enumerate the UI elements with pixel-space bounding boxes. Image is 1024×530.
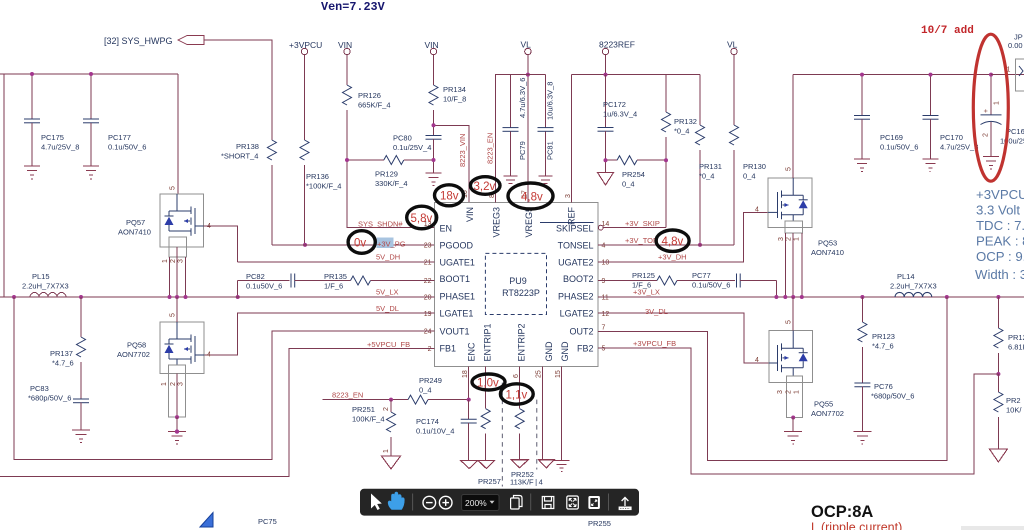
capacitor PC172	[598, 75, 638, 161]
net label +3VPCU_FB	[633, 339, 676, 348]
capacitor PC76	[854, 382, 914, 432]
svg-text:6: 6	[513, 374, 520, 378]
net label 3V_DL	[645, 307, 668, 316]
transistor PQ53 AON7410	[755, 167, 844, 257]
wire VL to VREG5 pin	[526, 55, 530, 203]
svg-text:10: 10	[602, 259, 610, 266]
svg-text:11: 11	[602, 295, 609, 302]
svg-text:AON7702: AON7702	[117, 350, 150, 359]
svg-text:PR129: PR129	[375, 170, 398, 179]
annotation Ven=7.23V	[321, 0, 386, 14]
wire VOUT1 sense loop	[14, 297, 435, 459]
resistor PR129 horizontal	[347, 156, 434, 189]
bottom right gray strip	[961, 526, 1024, 530]
svg-text:REF: REF	[566, 206, 576, 225]
junction dots left bus	[12, 295, 188, 299]
ground V divider	[989, 449, 1007, 462]
wire 8223_VIN branch to IC VIN pin	[434, 125, 469, 202]
annotation circle 4,8v TONSEL	[656, 230, 689, 251]
resistor PR249 horizontal	[408, 376, 469, 404]
svg-text:0.1u/25V_4: 0.1u/25V_4	[393, 143, 431, 152]
resistor PR252	[510, 366, 543, 486]
capacitor PC175	[24, 74, 79, 166]
svg-text:2: 2	[170, 382, 177, 386]
svg-text:3: 3	[565, 194, 572, 198]
svg-text:OCP:8A: OCP:8A	[811, 503, 873, 521]
svg-text:TONSEL: TONSEL	[558, 240, 594, 250]
svg-text:2: 2	[786, 390, 793, 394]
svg-text:PR132: PR132	[674, 117, 697, 126]
net label +3V_SKIP	[625, 219, 660, 228]
svg-text:5: 5	[786, 167, 793, 171]
label PR255	[588, 519, 611, 528]
wire SKIPSEL	[603, 227, 666, 229]
annotation circle 1,0v	[472, 374, 505, 390]
svg-text:2.2uH_7X7X3: 2.2uH_7X7X3	[22, 282, 69, 291]
svg-text:L (ripple current): L (ripple current)	[811, 521, 902, 530]
svg-text:PR125: PR125	[632, 271, 655, 280]
capacitor PC81	[538, 75, 555, 176]
svg-text:19: 19	[424, 311, 432, 318]
svg-text:25: 25	[536, 370, 543, 378]
svg-text:VL: VL	[727, 40, 738, 50]
svg-text:*0_4: *0_4	[674, 127, 689, 136]
svg-text:PR249: PR249	[419, 376, 442, 385]
svg-text:PC77: PC77	[692, 271, 711, 280]
svg-text:UGATE2: UGATE2	[558, 258, 593, 268]
annotation circle 0v	[348, 231, 375, 254]
svg-text:VREG5: VREG5	[524, 207, 534, 238]
svg-text:4,8v: 4,8v	[521, 192, 543, 204]
ground V ENC	[460, 460, 478, 468]
wire top-right VIN rail	[793, 74, 1024, 76]
junction dots top rail	[30, 72, 93, 76]
text L ripple current	[811, 521, 902, 530]
net label +3V_DH	[658, 253, 687, 262]
svg-text:+3VPCU: +3VPCU	[976, 187, 1024, 202]
svg-text:2.2uH_7X7X3: 2.2uH_7X7X3	[890, 282, 937, 291]
svg-text:4: 4	[755, 207, 759, 214]
text block right specs	[975, 187, 1024, 282]
svg-text:*SHORT_4: *SHORT_4	[221, 152, 258, 161]
svg-text:+3VPCU_FB: +3VPCU_FB	[633, 339, 676, 348]
svg-text:RT8223P: RT8223P	[502, 288, 540, 298]
svg-text:3: 3	[778, 237, 785, 241]
ground PC170	[923, 159, 939, 172]
svg-text:*4.7_6: *4.7_6	[52, 359, 74, 368]
net label 5V_DL	[376, 304, 399, 313]
svg-text:330K/F_4: 330K/F_4	[375, 179, 408, 188]
svg-text:[32] SYS_HWPG: [32] SYS_HWPG	[104, 36, 173, 46]
svg-text:2: 2	[170, 259, 177, 263]
svg-text:4,8v: 4,8v	[662, 236, 684, 248]
capacitor PC82	[238, 272, 295, 291]
svg-text:8223_VIN: 8223_VIN	[458, 134, 467, 167]
ground PC81	[539, 176, 553, 184]
svg-text:PL15: PL15	[32, 272, 50, 281]
PQ57 source pin box	[162, 237, 187, 297]
svg-text:18: 18	[462, 370, 469, 378]
svg-text:10K/: 10K/	[1006, 406, 1022, 415]
svg-text:1/F_6: 1/F_6	[324, 282, 343, 291]
svg-text:PL14: PL14	[897, 272, 915, 281]
svg-text:1,0v: 1,0v	[477, 378, 499, 390]
svg-text:2: 2	[428, 346, 432, 353]
svg-text:6.81K: 6.81K	[1008, 343, 1024, 352]
capacitor PC169	[854, 73, 918, 159]
svg-text:2: 2	[383, 407, 390, 411]
svg-text:*680p/50V_6: *680p/50V_6	[28, 394, 71, 403]
svg-text:3,2v: 3,2v	[474, 181, 496, 193]
wire LGATE1 to PQ58 gate	[204, 313, 434, 355]
wire 8223REF rail	[572, 55, 701, 203]
annotation 10/7 add	[921, 25, 974, 37]
ground PC169	[854, 159, 870, 172]
svg-text:TDC : 7.: TDC : 7.	[976, 218, 1024, 233]
svg-text:PR12: PR12	[1008, 333, 1024, 342]
wire LGATE2 to PQ55 gate	[598, 313, 769, 363]
annotation red ellipse right	[973, 34, 1008, 181]
capacitor PC83	[28, 384, 89, 430]
junction dots right bus	[774, 295, 1000, 299]
resistor PR251	[352, 398, 396, 456]
resistor PR2 divider bottom	[994, 374, 1022, 449]
svg-text:7: 7	[602, 325, 606, 332]
annotation circle 5,8v	[407, 206, 437, 229]
svg-text:PC76: PC76	[874, 382, 893, 391]
svg-text:AON7702: AON7702	[811, 409, 844, 418]
svg-text:12: 12	[602, 311, 610, 318]
svg-text:GND: GND	[560, 341, 570, 362]
net label 8223_VIN rotated	[458, 134, 467, 167]
svg-text:PR255: PR255	[588, 519, 611, 528]
node SYS_HWPG sheet connector [32]	[104, 36, 204, 47]
resistor PR132	[662, 75, 697, 228]
wire OUT2 sense loop	[598, 297, 947, 460]
svg-text:LGATE2: LGATE2	[560, 309, 594, 319]
annotation circle 4,8v VREG5	[508, 183, 553, 209]
svg-text:ENTRIP2: ENTRIP2	[516, 323, 526, 361]
wire PQ53 drain to rail	[792, 75, 794, 178]
svg-text:SYS_SHDN#: SYS_SHDN#	[358, 220, 403, 229]
node VL power port left	[521, 40, 532, 55]
IC top pin names rotated	[465, 206, 576, 237]
IC bottom pin numbers rotated	[462, 370, 562, 378]
IC left pin names	[440, 223, 476, 353]
svg-text:23: 23	[424, 243, 432, 250]
capacitor PC177	[83, 74, 146, 166]
svg-text:2: 2	[786, 237, 793, 241]
svg-text:3.3 Volt: 3.3 Volt	[976, 203, 1020, 218]
svg-text:PGOOD: PGOOD	[440, 240, 474, 250]
svg-text:ENTRIP1: ENTRIP1	[483, 323, 493, 361]
svg-text:PR134: PR134	[443, 85, 466, 94]
resistor PR130	[730, 55, 766, 245]
svg-text:*100K/F_4: *100K/F_4	[306, 182, 341, 191]
IC bottom pin names rotated	[466, 323, 570, 361]
PQ58 source pin box	[161, 365, 186, 432]
net label +3V_LX	[633, 288, 660, 297]
wire FB1 loop	[0, 348, 435, 476]
svg-text:22: 22	[424, 278, 432, 285]
resistor PR126	[343, 55, 391, 160]
svg-text:PR254: PR254	[622, 170, 645, 179]
resistor PR254 horizontal	[606, 156, 667, 189]
svg-text:0.00: 0.00	[1008, 41, 1023, 50]
resistor PR123	[858, 297, 895, 383]
pin SKIPSEL circle	[598, 225, 603, 230]
wire ENC pin to node	[467, 366, 471, 401]
wire PQ55 drain to bus	[792, 297, 794, 331]
svg-text:5V_DH: 5V_DH	[376, 253, 400, 262]
svg-text:5: 5	[786, 320, 793, 324]
dashed annotation line 1	[501, 383, 503, 487]
svg-text:0_4: 0_4	[419, 386, 432, 395]
capacitor PC77	[677, 271, 776, 290]
svg-text:1: 1	[794, 237, 801, 241]
svg-text:PQ53: PQ53	[818, 239, 837, 248]
svg-text:LGATE1: LGATE1	[440, 309, 474, 319]
ground V PR252	[511, 460, 528, 468]
svg-text:*0_4: *0_4	[699, 172, 714, 181]
wire BOOT2 drop	[775, 281, 777, 298]
wire VREG3 to rail	[496, 75, 511, 203]
svg-text:3V_DL: 3V_DL	[645, 307, 668, 316]
ground PC177	[83, 166, 99, 179]
svg-text:PR130: PR130	[743, 162, 766, 171]
wire 8223_EN line	[323, 399, 409, 401]
svg-text:4: 4	[602, 243, 606, 250]
IC PU9 RT8223P body	[435, 203, 599, 367]
svg-text:4.7u/6.3V_6: 4.7u/6.3V_6	[518, 78, 527, 118]
wire BOOT1 drop to LX	[236, 281, 240, 300]
wire GND pin 15	[561, 366, 563, 460]
ground PC76	[853, 432, 871, 445]
node VIN power port 2	[425, 40, 439, 55]
annotation circle 1,1v	[500, 384, 533, 404]
net label SYS_SHDN#	[358, 220, 403, 229]
svg-text:PC82: PC82	[246, 272, 265, 281]
PDF viewer toolbar	[360, 489, 639, 516]
svg-text:+3V_TON: +3V_TON	[625, 236, 658, 245]
ground PC175	[24, 166, 40, 179]
svg-text:100u/25: 100u/25	[1000, 137, 1024, 146]
svg-text:BOOT2: BOOT2	[563, 274, 594, 284]
svg-text:BOOT1: BOOT1	[440, 274, 471, 284]
svg-text:8223_EN: 8223_EN	[486, 133, 495, 164]
svg-text:10/F_8: 10/F_8	[443, 95, 466, 104]
svg-text:PR2: PR2	[1006, 396, 1021, 405]
capacitor PC16 polarized bulk	[981, 73, 1024, 157]
svg-text:0_4: 0_4	[743, 172, 756, 181]
svg-text:VOUT1: VOUT1	[440, 327, 470, 337]
ground V GND25	[539, 460, 555, 468]
wire SYS_HWPG to PR138	[204, 40, 272, 140]
svg-text:3: 3	[178, 382, 185, 386]
svg-text:GND: GND	[544, 341, 554, 362]
svg-text:+3V_LX: +3V_LX	[633, 288, 660, 297]
svg-text:1: 1	[794, 390, 801, 394]
svg-text:0.1u/50V_6: 0.1u/50V_6	[692, 281, 730, 290]
svg-text:PHASE1: PHASE1	[440, 292, 476, 302]
wire GND pin 25	[541, 366, 543, 459]
svg-text:PR251: PR251	[352, 405, 375, 414]
ground PC80 node	[426, 173, 442, 186]
transistor PQ57 AON7410	[118, 186, 211, 247]
svg-text:1: 1	[383, 449, 390, 453]
svg-text:PC169: PC169	[880, 133, 903, 142]
svg-text:PR137: PR137	[50, 349, 73, 358]
svg-text:0.1u/50V_6: 0.1u/50V_6	[108, 143, 146, 152]
dashed annotation line 2	[536, 400, 538, 470]
svg-text:5V_LX: 5V_LX	[376, 288, 399, 297]
svg-text:AON7410: AON7410	[811, 248, 844, 257]
svg-text:PQ58: PQ58	[127, 341, 146, 350]
svg-text:18v: 18v	[440, 191, 459, 203]
svg-text:OCP : 9.: OCP : 9.	[976, 249, 1024, 264]
IC right pin names	[540, 223, 594, 354]
svg-text:0v: 0v	[354, 238, 366, 250]
capacitor PC80	[393, 125, 442, 173]
svg-text:PR138: PR138	[236, 142, 259, 151]
svg-text:0.1u50V_6: 0.1u50V_6	[246, 282, 282, 291]
svg-text:PC79: PC79	[518, 141, 527, 160]
svg-text:24: 24	[424, 329, 432, 336]
svg-text:1: 1	[994, 101, 1001, 105]
svg-text:PC170: PC170	[940, 133, 963, 142]
wire VREG rail interconnect	[511, 74, 546, 76]
wire 3V_LX main bus right	[598, 296, 1024, 298]
ground PC16	[983, 157, 999, 170]
svg-text:PC81: PC81	[546, 141, 555, 160]
junction dots EN network	[303, 123, 436, 247]
resistor PR12 divider top	[994, 297, 1024, 376]
svg-text:PR126: PR126	[358, 91, 381, 100]
svg-text:0_4: 0_4	[622, 180, 635, 189]
transistor PQ55 AON7702	[755, 320, 844, 418]
connector JP right edge	[991, 33, 1024, 91]
net label +3V_TON	[625, 236, 658, 245]
svg-text:PC175: PC175	[41, 133, 64, 142]
svg-text:2: 2	[983, 133, 990, 137]
svg-text:PC174: PC174	[416, 417, 439, 426]
PQ55 source pin box	[777, 376, 802, 432]
svg-text:PU9: PU9	[509, 276, 527, 286]
svg-text:FB1: FB1	[440, 344, 457, 354]
svg-text:Ven=7.23V: Ven=7.23V	[321, 0, 386, 14]
svg-text:4: 4	[755, 357, 759, 364]
ground PQ58	[168, 429, 186, 444]
resistor PR134	[429, 55, 466, 126]
svg-text:200%: 200%	[465, 498, 487, 508]
wire left-edge vertical	[3, 74, 5, 297]
ground V PR251	[382, 456, 401, 469]
inductor PL15	[22, 272, 69, 297]
svg-text:0.1u/10V_4: 0.1u/10V_4	[416, 427, 454, 436]
resistor PR125	[598, 271, 677, 290]
node 8223REF power port	[599, 40, 635, 55]
wire UGATE1	[238, 261, 435, 263]
ground V PR257	[478, 460, 495, 468]
svg-text:PHASE2: PHASE2	[558, 292, 594, 302]
svg-text:3: 3	[777, 390, 784, 394]
annotation circle 3,2v	[470, 177, 500, 195]
resistor PR137	[50, 297, 86, 399]
label PC75	[258, 517, 277, 526]
svg-text:665K/F_4: 665K/F_4	[358, 101, 391, 110]
node VL power port right	[727, 40, 738, 55]
svg-text:5: 5	[170, 313, 177, 317]
svg-text:10/7 add: 10/7 add	[921, 25, 974, 37]
svg-text:PR257: PR257	[478, 477, 501, 486]
wire 5V_LX main bus	[0, 296, 435, 298]
svg-text:PR131: PR131	[699, 162, 722, 171]
ground PQ55	[784, 432, 802, 445]
capacitor PC79	[503, 75, 528, 176]
net label +5VPCU_FB	[367, 340, 410, 349]
svg-text:100K/F_4: 100K/F_4	[352, 415, 385, 424]
svg-text:Width : 3: Width : 3	[975, 267, 1024, 282]
svg-text:5: 5	[170, 186, 177, 190]
svg-text:113K/F | 4: 113K/F | 4	[510, 478, 543, 487]
svg-text:5: 5	[602, 345, 606, 352]
ground GND15 bars	[554, 461, 570, 472]
net label 8223_EN rotated	[486, 133, 495, 164]
svg-text:+3V_SKIP: +3V_SKIP	[625, 219, 660, 228]
ground AGND triangle PC172	[598, 158, 614, 185]
svg-text:9: 9	[602, 278, 606, 285]
wire FB2 loop	[598, 348, 998, 474]
net label 5V_DH	[376, 253, 400, 262]
wire top-left VIN rail	[0, 74, 178, 194]
svg-text:1,1v: 1,1v	[506, 390, 528, 402]
svg-text:PR135: PR135	[324, 272, 347, 281]
svg-text:+3V_PG: +3V_PG	[377, 240, 406, 249]
resistor PR136 pullup	[300, 55, 341, 245]
svg-text:4: 4	[207, 352, 211, 359]
svg-text:+: +	[983, 109, 990, 113]
svg-text:15: 15	[555, 370, 562, 378]
wire EN net drop	[347, 160, 435, 228]
svg-text:21: 21	[424, 259, 432, 266]
node +3VPCU power port	[289, 40, 322, 55]
resistor PR131	[696, 75, 722, 247]
svg-text:PC83: PC83	[30, 384, 49, 393]
svg-text:UGATE1: UGATE1	[440, 258, 475, 268]
resistor PR135	[295, 272, 435, 291]
net label 5V_LX	[376, 288, 399, 297]
svg-text:PC75: PC75	[258, 517, 277, 526]
bottom page fragment blue marker	[200, 513, 213, 528]
svg-text:OUT2: OUT2	[569, 327, 593, 337]
svg-text:FB2: FB2	[577, 344, 594, 354]
capacitor PC174	[416, 400, 477, 461]
svg-text:PR136: PR136	[306, 172, 329, 181]
inductor PL14	[890, 272, 937, 297]
svg-text:PQ57: PQ57	[126, 218, 145, 227]
svg-text:5V_DL: 5V_DL	[376, 304, 399, 313]
svg-text:*680p/50V_6: *680p/50V_6	[871, 392, 914, 401]
svg-text:20: 20	[424, 295, 432, 302]
svg-text:4.7u/25V_8: 4.7u/25V_8	[41, 143, 79, 152]
svg-text:4.7u/25V_8: 4.7u/25V_8	[940, 143, 978, 152]
svg-text:3: 3	[178, 259, 185, 263]
svg-text:VIN: VIN	[465, 207, 475, 222]
wire PQ58 drain to bus	[176, 297, 178, 322]
ground PC79	[504, 176, 518, 184]
svg-text:VREG3: VREG3	[491, 207, 501, 238]
ground PC83	[72, 430, 90, 443]
